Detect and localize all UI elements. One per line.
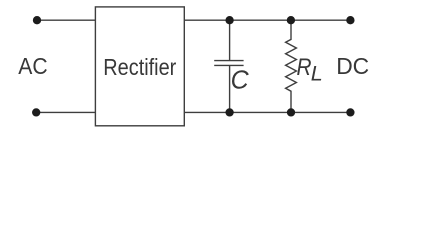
node: resistor top junction <box>287 16 295 24</box>
wire: top rail from rectifier to DC terminal <box>184 19 350 21</box>
svg-text:C: C <box>231 66 250 94</box>
node: capacitor top junction <box>225 16 233 24</box>
node: capacitor bottom junction <box>225 108 233 116</box>
node: DC output terminal top <box>346 16 354 24</box>
svg-text:R: R <box>297 54 312 81</box>
wire: AC top lead <box>37 19 95 21</box>
svg-text:AC: AC <box>18 53 47 79</box>
svg-text:DC: DC <box>336 53 369 79</box>
node: AC input terminal bottom <box>32 108 40 116</box>
rectifier block U1 <box>95 7 184 126</box>
svg-text:Rectifier: Rectifier <box>103 54 176 80</box>
svg-text:L: L <box>311 62 323 85</box>
wire: bottom rail from rectifier to DC terminal <box>184 111 350 113</box>
wire: AC bottom lead <box>36 111 95 113</box>
capacitor C bottom lead <box>229 65 231 112</box>
resistor RL zigzag body with leads <box>286 20 297 112</box>
node: DC output terminal bottom <box>346 108 354 116</box>
capacitor C bottom plate <box>214 64 243 66</box>
node: AC input terminal top <box>33 16 41 24</box>
capacitor C top lead <box>229 20 231 60</box>
node: resistor bottom junction <box>287 108 295 116</box>
capacitor C top plate <box>214 60 243 62</box>
